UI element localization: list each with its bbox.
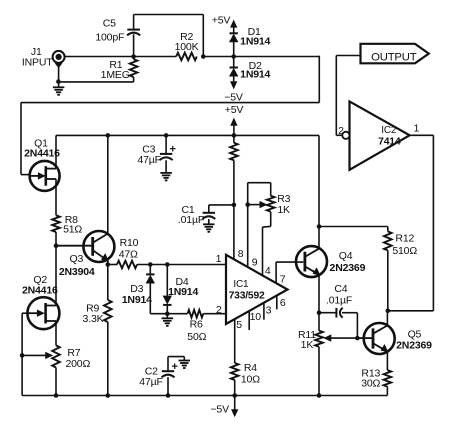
svg-text:Q3: Q3 bbox=[69, 253, 83, 265]
junction C1 tap pin8 bbox=[232, 203, 237, 208]
wire pin 7 to Q4 base bbox=[276, 262, 303, 283]
svg-text:+: + bbox=[171, 361, 177, 373]
power +5V arrow top bbox=[212, 15, 237, 34]
svg-text:100pF: 100pF bbox=[95, 32, 124, 44]
power +5V arrow on rail bbox=[225, 104, 244, 135]
svg-text:2N4416: 2N4416 bbox=[22, 285, 58, 297]
svg-text:2N2369: 2N2369 bbox=[330, 262, 366, 274]
svg-text:6: 6 bbox=[280, 297, 286, 309]
label R1 1MEG bbox=[101, 59, 130, 81]
label R7 200ohm bbox=[65, 347, 90, 370]
label D2 1N914 bbox=[240, 60, 270, 81]
junction rail +5V arrow bbox=[232, 133, 237, 138]
svg-text:4: 4 bbox=[265, 265, 271, 277]
pin 4 label IC1 bbox=[265, 265, 271, 277]
label Q2 2N4416 bbox=[22, 274, 58, 296]
wire -5V bottom rail bbox=[22, 395, 387, 397]
wire main line to clamp corner bbox=[203, 56, 319, 58]
svg-text:1N914: 1N914 bbox=[240, 69, 270, 81]
svg-text:R7: R7 bbox=[67, 347, 80, 359]
junction R12 bottom node bbox=[386, 309, 391, 314]
svg-text:2N4416: 2N4416 bbox=[24, 148, 60, 160]
junction D3 top bbox=[148, 262, 153, 267]
svg-text:7414: 7414 bbox=[378, 137, 401, 148]
svg-text:1: 1 bbox=[216, 253, 222, 265]
svg-text:1MEG: 1MEG bbox=[101, 69, 130, 81]
capacitor C5 100pF bbox=[127, 15, 140, 57]
svg-text:+5V: +5V bbox=[225, 104, 244, 116]
svg-text:733/592: 733/592 bbox=[229, 290, 265, 301]
junction rail R11 bbox=[317, 393, 322, 398]
ground C3 ground bbox=[160, 173, 172, 181]
junction R3 wiper node bbox=[245, 202, 250, 207]
wire Q1 drain up bbox=[55, 135, 57, 168]
wire OUTPUT to IC2 input bbox=[336, 56, 360, 136]
wire input node right corner bbox=[318, 56, 320, 103]
svg-text:30Ω: 30Ω bbox=[361, 377, 380, 389]
label C2 47uF bbox=[139, 365, 162, 387]
pin 9 label IC1 bbox=[252, 256, 258, 268]
svg-text:.01µF: .01µF bbox=[326, 294, 352, 306]
svg-text:R10: R10 bbox=[120, 237, 139, 249]
junction rail R4 bbox=[232, 393, 237, 398]
op-amp IC1 733/592 triangle bbox=[226, 255, 288, 324]
power -5V arrow below D2 bbox=[224, 76, 243, 103]
wire +5V rail bbox=[56, 134, 319, 136]
resistor R6 50ohm bbox=[188, 310, 204, 318]
svg-text:1K: 1K bbox=[301, 339, 314, 351]
wire Q2 source down bbox=[55, 321, 57, 345]
junction D4 ground node bbox=[165, 311, 170, 316]
junction R1/C5 tap bbox=[131, 54, 136, 59]
junction Q5 base node bbox=[355, 336, 360, 341]
svg-text:1: 1 bbox=[413, 123, 419, 135]
svg-text:1N914: 1N914 bbox=[240, 35, 270, 47]
node OUTPUT flag bbox=[361, 44, 429, 64]
diode D3 1N914 bbox=[146, 265, 154, 314]
junction rail R9 bbox=[106, 393, 111, 398]
wire R3 top loop bbox=[248, 183, 271, 196]
svg-text:9: 9 bbox=[252, 256, 258, 268]
label R11 1K bbox=[298, 329, 316, 351]
wire R12 tee run bbox=[319, 226, 388, 228]
label J1 INPUT bbox=[22, 46, 53, 69]
transistor Q5 2N2369 bbox=[357, 323, 394, 354]
svg-text:Q4: Q4 bbox=[339, 250, 353, 262]
wire C5 top rail bbox=[134, 15, 204, 57]
junction rail Q3 collector bbox=[106, 133, 111, 138]
svg-text:INPUT: INPUT bbox=[22, 57, 53, 69]
svg-text:R4: R4 bbox=[244, 362, 257, 374]
ground diode node ground bbox=[162, 314, 174, 326]
junction Q3 base node bbox=[54, 243, 59, 248]
transistor Q4 2N2369 bbox=[296, 246, 327, 277]
wire Q2 gate loop bbox=[22, 313, 27, 395]
capacitor C4 .01uF bbox=[319, 308, 357, 338]
junction D4 top bbox=[165, 262, 170, 267]
power -5V arrow bottom bbox=[210, 396, 237, 417]
label IC1 733/592 bbox=[229, 279, 265, 301]
ground input ground symbol bbox=[53, 87, 65, 95]
svg-text:1N914: 1N914 bbox=[168, 286, 198, 298]
inverter bubble IC2 pin 2 bbox=[342, 132, 349, 139]
svg-text:C5: C5 bbox=[103, 18, 116, 30]
pin 3 label IC1 bbox=[266, 305, 272, 317]
junction jack-R1 node bbox=[56, 79, 61, 84]
svg-text:2: 2 bbox=[216, 304, 222, 316]
svg-text:+5V: +5V bbox=[212, 15, 231, 27]
svg-text:C4: C4 bbox=[334, 283, 347, 295]
connector J1 input jack bbox=[53, 51, 65, 68]
pin 5 label IC1 bbox=[236, 319, 242, 331]
resistor R12 510ohm bbox=[384, 227, 392, 311]
label Q5 2N2369 bbox=[396, 329, 432, 352]
junction rail C3 bbox=[164, 133, 169, 138]
capacitor C2 47uF bbox=[162, 357, 185, 396]
wire main input line y=56.5 bbox=[64, 56, 176, 58]
resistor R4 10ohm bbox=[231, 363, 239, 396]
transistor Q1 2N4416 JFET bbox=[30, 161, 60, 191]
resistor R10 47ohm bbox=[108, 261, 137, 269]
resistor R13 30ohm bbox=[384, 352, 392, 396]
pin 8 label IC1 bbox=[238, 248, 244, 260]
pin 1 label IC2 bbox=[413, 123, 419, 135]
wire Q1 source down bbox=[55, 179, 57, 215]
wire Q5 collector up bbox=[386, 311, 388, 326]
svg-text:51Ω: 51Ω bbox=[63, 223, 82, 235]
wire R1 bottom to jack ground bbox=[58, 81, 133, 83]
pin 10 label IC1 bbox=[250, 311, 262, 323]
wire R7 wiper arrow bbox=[22, 352, 52, 358]
wire pin 6 stub bbox=[276, 295, 278, 309]
svg-text:2: 2 bbox=[338, 125, 344, 137]
pin 7 label IC1 bbox=[280, 273, 286, 285]
junction C4 tap bbox=[317, 310, 322, 315]
svg-text:+: + bbox=[169, 143, 175, 155]
wire pin 5 vertical bbox=[234, 319, 236, 363]
capacitor C1 .01uF bbox=[202, 205, 234, 224]
svg-text:2N2369: 2N2369 bbox=[396, 340, 432, 352]
svg-text:1N914: 1N914 bbox=[122, 294, 152, 306]
wire pin 10 stub bbox=[248, 311, 250, 330]
wire R6 to IC1 pin2 bbox=[203, 313, 226, 315]
svg-text:7: 7 bbox=[280, 273, 286, 285]
svg-text:3: 3 bbox=[266, 305, 272, 317]
svg-text:510Ω: 510Ω bbox=[392, 245, 417, 257]
label IC2 7414 bbox=[378, 125, 401, 148]
svg-text:47Ω: 47Ω bbox=[119, 249, 138, 261]
junction Q2 gate wiper node bbox=[20, 353, 25, 358]
diode D4 1N914 bbox=[163, 265, 171, 314]
diode D1 1N914 bbox=[230, 33, 238, 56]
wire R8 to Q2 drain bbox=[55, 232, 57, 306]
ground C1 ground bbox=[203, 224, 215, 232]
label R12 510ohm bbox=[392, 233, 417, 257]
diode D2 1N914 bbox=[230, 57, 238, 77]
wire input node long run y=102.6 bbox=[21, 102, 319, 104]
capacitor C3 47uF bbox=[160, 135, 176, 172]
svg-text:10Ω: 10Ω bbox=[241, 373, 260, 385]
svg-text:−5V: −5V bbox=[210, 404, 229, 416]
wire Q4 emitter down bbox=[318, 275, 320, 331]
label R13 30ohm bbox=[361, 367, 380, 389]
junction rail C2 bbox=[166, 393, 171, 398]
label C3 47uF bbox=[137, 144, 160, 166]
junction Q3 emitter node bbox=[106, 262, 111, 267]
svg-text:1K: 1K bbox=[277, 204, 290, 216]
svg-text:10: 10 bbox=[250, 311, 262, 323]
label C4 .01uF bbox=[326, 283, 352, 306]
label Q3 2N3904 bbox=[59, 253, 95, 278]
op-amp U IC2 7414 inverter triangle bbox=[350, 101, 410, 169]
svg-text:3.3K: 3.3K bbox=[83, 313, 104, 325]
resistor R2 100K bbox=[176, 53, 197, 61]
label R2 100K bbox=[175, 31, 199, 53]
label R10 47ohm bbox=[119, 237, 139, 260]
svg-text:−5V: −5V bbox=[224, 92, 243, 104]
resistor R8 51ohm bbox=[52, 215, 60, 232]
wire D3 D4 bottom bbox=[150, 313, 187, 315]
transistor Q2 2N4416 JFET bbox=[27, 297, 59, 329]
svg-text:200Ω: 200Ω bbox=[65, 358, 90, 370]
svg-text:R6: R6 bbox=[190, 318, 203, 330]
label R6 50ohm bbox=[187, 318, 206, 343]
svg-text:100K: 100K bbox=[175, 41, 199, 53]
label Q1 2N4416 bbox=[24, 137, 60, 159]
svg-text:8: 8 bbox=[238, 248, 244, 260]
svg-text:5: 5 bbox=[236, 319, 242, 331]
ground C2 ground bbox=[179, 361, 191, 369]
resistor R7 200ohm bbox=[52, 345, 60, 395]
wire pin 9 vertical bbox=[247, 183, 249, 267]
wire left drop to Q1 gate bbox=[21, 103, 30, 175]
resistor R3 1K potentiometer bbox=[248, 196, 275, 276]
pin 1 label IC1 bbox=[216, 253, 222, 265]
svg-text:IC1: IC1 bbox=[233, 279, 249, 290]
label C1 .01uF bbox=[178, 204, 204, 226]
resistor R11 1K potentiometer bbox=[315, 331, 357, 396]
wire jack to ground bbox=[58, 67, 60, 87]
label R8 51ohm bbox=[63, 214, 82, 235]
svg-text:.01µF: .01µF bbox=[178, 214, 204, 226]
svg-text:50Ω: 50Ω bbox=[187, 331, 206, 343]
junction clamp node bbox=[231, 54, 236, 59]
wire pin 3 stub bbox=[263, 303, 265, 320]
label R4 10ohm bbox=[241, 362, 260, 385]
wire Q3 collector up bbox=[107, 135, 109, 234]
label C5 100pF bbox=[95, 18, 124, 44]
pin 2 label IC2 bbox=[338, 125, 344, 137]
resistor R9 3.3K bbox=[104, 265, 112, 396]
svg-text:47µF: 47µF bbox=[137, 154, 160, 166]
svg-text:IC2: IC2 bbox=[381, 125, 397, 136]
label R9 3.3K bbox=[83, 302, 104, 325]
pin 2 label IC1 bbox=[216, 304, 222, 316]
resistor R1 1MEG bbox=[130, 57, 138, 82]
junction R2 right node bbox=[201, 54, 206, 59]
label Q4 2N2369 bbox=[330, 250, 366, 274]
svg-text:R12: R12 bbox=[395, 233, 414, 245]
junction rail R7 bbox=[54, 393, 59, 398]
label D3 1N914 bbox=[122, 283, 152, 306]
wire Q3 emitter stub bbox=[107, 261, 109, 265]
label R3 1K bbox=[277, 193, 290, 216]
wire IC2 output run bbox=[388, 135, 434, 310]
wire R10 to IC1 pin1 bbox=[137, 264, 226, 266]
wire +5V drop to Q4 collector bbox=[318, 135, 320, 248]
pin 6 label IC1 bbox=[280, 297, 286, 309]
svg-text:2N3904: 2N3904 bbox=[59, 266, 95, 278]
label D1 1N914 bbox=[240, 26, 270, 48]
junction R12 tee bbox=[317, 224, 322, 229]
transistor Q3 2N3904 bbox=[56, 231, 114, 262]
svg-text:47µF: 47µF bbox=[139, 376, 162, 388]
svg-text:OUTPUT: OUTPUT bbox=[371, 51, 417, 63]
resistor unlabeled +5V to pin 8 bbox=[230, 135, 238, 259]
label D4 1N914 bbox=[168, 276, 198, 298]
